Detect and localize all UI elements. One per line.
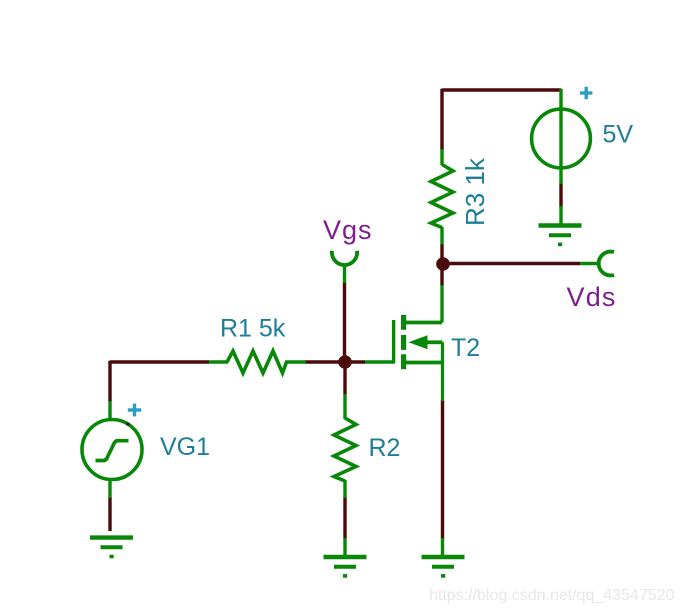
- svg-text:https://blog.csdn.net/qq_43547: https://blog.csdn.net/qq_43547520: [429, 587, 675, 604]
- svg-text:VG1: VG1: [160, 433, 210, 461]
- svg-text:Vgs: Vgs: [323, 215, 373, 245]
- svg-text:Vds: Vds: [567, 282, 617, 312]
- svg-text:R3 1k: R3 1k: [460, 157, 490, 226]
- svg-text:R2: R2: [369, 434, 401, 462]
- svg-text:T2: T2: [451, 334, 480, 362]
- svg-text:5V: 5V: [603, 121, 634, 149]
- svg-text:R1 5k: R1 5k: [220, 315, 286, 343]
